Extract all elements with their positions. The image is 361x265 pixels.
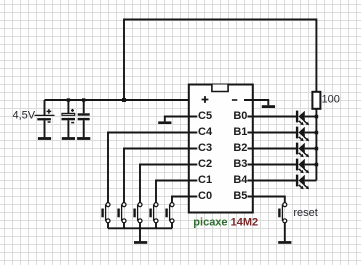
svg-text:C0: C0: [198, 190, 212, 202]
wire LED D3 anode to rail: [305, 148, 317, 150]
U1 pin - label: [232, 99, 237, 101]
wire C3 pin to switch S2: [124, 149, 197, 203]
svg-text:B4: B4: [233, 174, 248, 186]
wire B2 pin to LED D3 cathode: [248, 148, 297, 150]
capacitor C2: [78, 100, 90, 137]
LED D1: [248, 111, 317, 126]
node junction rail / C2: [82, 98, 85, 101]
svg-text:reset: reset: [293, 207, 317, 219]
svg-text:4,5V: 4,5V: [13, 110, 36, 122]
node rail / LED D3: [315, 147, 319, 151]
svg-text:B5: B5: [233, 190, 247, 202]
switch S2: [117, 203, 126, 229]
wire +V power rail: [45, 99, 197, 101]
svg-text:C4: C4: [198, 126, 213, 138]
svg-text:B2: B2: [233, 142, 247, 154]
switch S6 reset: [278, 203, 287, 223]
wire switches common bus: [108, 227, 172, 229]
wire C2 pin to switch S3: [140, 165, 197, 203]
ground reset: [278, 241, 291, 244]
wire LED D1 anode to rail: [305, 116, 317, 118]
svg-text:B1: B1: [233, 126, 247, 138]
resistor R1: [312, 92, 320, 109]
switch S4: [149, 203, 158, 229]
wire C1 pin to switch S4: [156, 181, 197, 203]
ground battery: [38, 137, 51, 140]
LED D5: [248, 175, 317, 190]
ground C2: [77, 137, 90, 140]
wire B1 pin to LED D2 cathode: [248, 132, 297, 134]
wire LED D2 anode to rail: [305, 132, 317, 134]
node junction rail / top loop: [122, 98, 126, 102]
switch S3: [133, 203, 142, 229]
svg-text:picaxe 14M2: picaxe 14M2: [193, 217, 258, 229]
switch S5: [165, 203, 174, 229]
svg-text:B3: B3: [233, 158, 247, 170]
wire reset switch to ground: [284, 223, 286, 241]
ground C1: [62, 137, 75, 140]
wire C5 pin to ground: [165, 117, 198, 122]
wire resistor to LED anode rail: [315, 109, 317, 181]
wire bus to ground: [139, 228, 141, 241]
wire C0 pin to switch S5: [172, 197, 197, 203]
svg-text:C2: C2: [198, 158, 212, 170]
U1 pin + label: [202, 96, 209, 103]
wire - pin to ground: [244, 100, 268, 105]
svg-text:C5: C5: [198, 110, 212, 122]
ground - pin: [262, 105, 275, 108]
wire B3 pin to LED D4 cathode: [248, 164, 297, 166]
battery BT1 4,5V: [35, 100, 55, 137]
LED D4: [248, 159, 317, 174]
svg-text:B0: B0: [233, 110, 247, 122]
node junction rail / C1: [67, 98, 70, 101]
IC U1 picaxe 14M2 body: [189, 85, 253, 213]
wire LED D5 anode to rail: [305, 180, 317, 182]
wire top loop from +V rail up over to resistor R1: [124, 20, 316, 101]
LED D2: [248, 127, 317, 142]
svg-text:C1: C1: [198, 174, 212, 186]
node rail / LED D4: [315, 163, 319, 167]
node rail / LED D1: [315, 115, 319, 119]
svg-text:C3: C3: [198, 142, 212, 154]
svg-text:100: 100: [322, 94, 340, 106]
wire B5 pin to reset switch S6: [248, 197, 285, 203]
switch S1: [101, 203, 110, 229]
U1 notch: [212, 85, 228, 92]
node rail / LED D2: [315, 131, 319, 135]
ground C5 pin: [158, 121, 171, 124]
wire B4 pin to LED D5 cathode: [248, 180, 297, 182]
wire LED D4 anode to rail: [305, 164, 317, 166]
wire B0 pin to LED D1 cathode: [248, 116, 297, 118]
capacitor C1 electrolytic: [62, 100, 76, 137]
LED D3: [248, 143, 317, 158]
wire C4 pin to switch S1: [108, 133, 197, 203]
ground switches: [134, 241, 147, 244]
